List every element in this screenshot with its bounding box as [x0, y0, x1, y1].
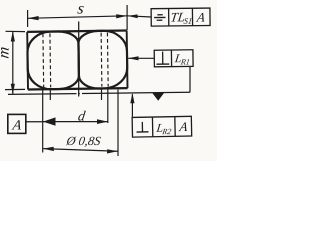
FCF middle (perp L_R1)	[154, 50, 193, 67]
m dimension line	[12, 31, 14, 94]
leader from L_R1 to nut	[128, 57, 154, 59]
FCF bottom (perp L_R2 A)	[132, 116, 192, 137]
hidden line hole left	[49, 33, 52, 87]
perpendicularity symbol bottom	[136, 122, 148, 132]
m arrow top	[11, 31, 15, 42]
svg-text:S1: S1	[183, 16, 193, 26]
perpendicularity symbol mid	[156, 52, 169, 65]
svg-text:A: A	[178, 119, 190, 134]
symmetry symbol	[154, 15, 165, 21]
s dimension line	[28, 16, 128, 18]
svg-text:Ø 0,8S: Ø 0,8S	[65, 134, 103, 148]
surface segment center dash	[78, 93, 80, 95]
nut top edge	[27, 31, 127, 32]
s arrowheads	[28, 14, 138, 20]
0.8s dimension	[43, 149, 118, 152]
m arrow bottom	[11, 84, 15, 95]
right face chamfer arc	[78, 31, 127, 89]
surface segment left	[8, 93, 77, 96]
extension lines below nut	[43, 90, 118, 157]
hidden line thread major right	[106, 33, 109, 87]
svg-text:R1: R1	[179, 57, 190, 66]
m arrowheads	[11, 31, 15, 94]
0.8s arrow right	[107, 149, 118, 153]
extension hole left	[49, 90, 51, 101]
d left fat arrow	[43, 117, 56, 125]
svg-text:R2: R2	[161, 127, 172, 136]
left face chamfer arc	[27, 31, 79, 89]
s extension left	[27, 10, 29, 27]
datum A box	[8, 114, 43, 133]
support triangle	[152, 93, 164, 101]
nut right edge	[126, 31, 129, 89]
nut bottom edge	[28, 88, 128, 89]
bearing surface line	[8, 67, 190, 95]
s dimension	[28, 5, 152, 30]
riser to L_R1 frame	[189, 67, 191, 93]
0.8s arrow left	[43, 147, 54, 151]
hidden line thread major left	[42, 33, 45, 87]
svg-text:A: A	[11, 118, 23, 134]
surface segment right	[82, 92, 190, 93]
extension d right	[107, 90, 109, 124]
m dimension	[5, 31, 25, 94]
datum leader	[26, 121, 43, 123]
svg-text:s: s	[76, 1, 85, 18]
d dimension	[43, 121, 108, 123]
leader from L_R2 to surface	[131, 94, 133, 117]
FCF top (symmetry TLs1 A)	[151, 8, 210, 26]
L_R1 leader arrowhead	[128, 56, 139, 60]
extension d left / datum	[42, 90, 44, 153]
s arrow left	[28, 16, 39, 20]
svg-text:A: A	[195, 10, 207, 25]
s extension right	[126, 5, 128, 30]
hidden line hole right	[100, 33, 103, 87]
m extension top	[6, 30, 26, 32]
extension hole right	[101, 90, 103, 101]
leader to frame	[127, 16, 151, 17]
center line / axis	[78, 22, 80, 97]
L_R2 leader arrowhead	[130, 93, 134, 103]
nut body outline	[27, 31, 127, 90]
d right arrow	[97, 119, 108, 124]
nut left edge	[26, 32, 29, 90]
s arrow right	[116, 14, 127, 18]
svg-text:m: m	[0, 46, 12, 60]
hidden thread lines	[43, 33, 108, 88]
m extension bottom	[5, 88, 25, 90]
frame leader arrow	[128, 14, 138, 18]
extension 0.8s right	[117, 90, 119, 157]
